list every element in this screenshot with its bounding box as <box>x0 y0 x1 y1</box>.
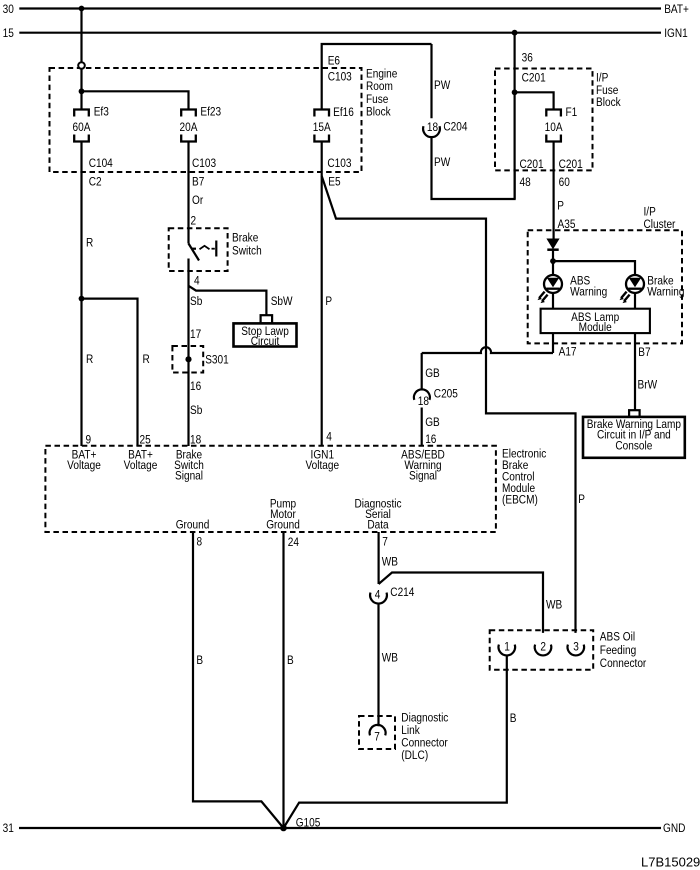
svg-text:17: 17 <box>190 328 201 341</box>
svg-text:C103: C103 <box>328 71 352 84</box>
svg-text:60: 60 <box>559 176 570 189</box>
svg-text:60A: 60A <box>73 121 91 134</box>
stop lamp circuit box <box>234 323 297 346</box>
node branch to pin 25 <box>79 296 85 302</box>
svg-text:1: 1 <box>504 641 510 654</box>
label pin 16 <box>425 433 436 446</box>
svg-text:C2: C2 <box>89 176 102 189</box>
wire diagnostic serial data <box>378 532 380 584</box>
label R <box>86 237 93 250</box>
wire bus 30 BAT+ <box>19 7 661 9</box>
svg-text:C205: C205 <box>434 388 458 401</box>
svg-text:G105: G105 <box>296 817 321 830</box>
svg-text:Warning: Warning <box>647 286 684 299</box>
brake warning lamp connector tab <box>629 410 640 417</box>
label GB <box>425 416 440 429</box>
svg-text:B7: B7 <box>192 176 204 189</box>
svg-text:GND: GND <box>663 822 685 835</box>
svg-text:7: 7 <box>374 731 380 744</box>
fuse F1 10A <box>546 110 561 142</box>
label ABS/EBD Warning Signal <box>401 449 445 483</box>
label GB <box>425 367 440 380</box>
label BAT+ <box>664 3 689 16</box>
svg-text:E5: E5 <box>328 176 340 189</box>
wire LED2 to module <box>634 293 636 309</box>
node LED branch <box>550 258 556 264</box>
label C103 <box>328 71 352 84</box>
svg-text:Fuse: Fuse <box>596 84 618 97</box>
wire GB lower <box>421 408 423 447</box>
svg-text:WB: WB <box>382 556 398 569</box>
EBCM box <box>45 446 496 532</box>
svg-text:Ef16: Ef16 <box>333 106 354 119</box>
svg-text:9: 9 <box>86 434 92 447</box>
svg-text:18: 18 <box>190 434 201 447</box>
wire diode to LEDs <box>552 250 554 275</box>
wire PW lower <box>432 137 515 199</box>
svg-text:Switch: Switch <box>232 245 262 258</box>
label IGN1 <box>664 27 688 40</box>
label E5 <box>328 176 340 189</box>
label ABS Lamp Module <box>571 311 619 334</box>
svg-text:R: R <box>86 237 93 250</box>
wire WB to DLC <box>377 604 379 727</box>
svg-text:C104: C104 <box>89 157 113 170</box>
label BrW <box>638 379 658 392</box>
wire E6 to PW column <box>322 44 432 110</box>
svg-text:16: 16 <box>190 380 201 393</box>
svg-text:C214: C214 <box>390 586 414 599</box>
wire to Ef23 <box>82 91 189 109</box>
wire R to pin 9 <box>80 142 82 447</box>
wire B from oil connector pin 1 <box>284 656 507 829</box>
engine room fuse block box <box>50 68 362 172</box>
stop lamp connector tab <box>261 315 273 323</box>
svg-text:Sb: Sb <box>190 295 202 308</box>
wire battery feed <box>80 9 82 110</box>
label 18 <box>427 121 438 134</box>
label 4 <box>375 589 381 602</box>
svg-text:Feeding: Feeding <box>600 644 636 657</box>
svg-text:16: 16 <box>425 433 436 446</box>
svg-text:I/P: I/P <box>596 72 608 85</box>
oil connector pin 1 <box>499 641 516 656</box>
label B <box>510 712 517 725</box>
label 10A <box>545 121 563 134</box>
wire B7 BrW <box>634 333 636 410</box>
switch blade <box>189 244 200 261</box>
svg-text:Ground: Ground <box>176 519 210 532</box>
svg-text:Console: Console <box>615 440 652 453</box>
svg-text:C103: C103 <box>327 157 351 170</box>
wire branch to oil connector pin 2 <box>379 573 543 633</box>
label 15 <box>3 27 14 40</box>
label pin 8 <box>197 536 203 549</box>
svg-text:(EBCM): (EBCM) <box>502 494 538 507</box>
label 48 <box>520 176 531 189</box>
label C103 <box>327 157 351 170</box>
wire PW upper <box>430 44 432 118</box>
splice S301 node <box>185 356 191 362</box>
svg-text:C201: C201 <box>559 158 583 171</box>
svg-text:8: 8 <box>197 536 203 549</box>
ABS lamp module box <box>541 309 650 333</box>
label pin 25 <box>140 434 151 447</box>
svg-text:Ef3: Ef3 <box>94 106 109 119</box>
label 15A <box>313 121 331 134</box>
label BAT+ Voltage pin 9 <box>67 449 101 472</box>
ABS oil feeding connector box <box>490 630 594 670</box>
svg-text:3: 3 <box>573 641 579 654</box>
svg-text:B: B <box>510 712 517 725</box>
node on bus 15 <box>512 30 518 36</box>
label Brake Warning <box>647 275 684 299</box>
label C104 <box>89 157 113 170</box>
svg-text:30: 30 <box>3 3 14 16</box>
svg-text:P: P <box>325 295 332 308</box>
label 18 <box>418 395 429 408</box>
connector C214 <box>370 593 387 604</box>
svg-text:GB: GB <box>425 416 440 429</box>
svg-text:7: 7 <box>382 536 388 549</box>
label IGN1 Voltage <box>305 449 339 472</box>
connector C204 <box>423 126 440 137</box>
svg-text:IGN1: IGN1 <box>664 27 688 40</box>
svg-text:Sb: Sb <box>190 404 202 417</box>
svg-text:24: 24 <box>288 536 299 549</box>
svg-text:20A: 20A <box>180 121 198 134</box>
label Sb <box>190 404 202 417</box>
svg-text:18: 18 <box>418 395 429 408</box>
svg-text:Link: Link <box>401 724 420 737</box>
svg-text:15: 15 <box>3 27 14 40</box>
label 36 <box>522 52 533 65</box>
svg-text:E6: E6 <box>328 55 340 68</box>
wire E5 output <box>321 142 323 175</box>
svg-text:Cluster: Cluster <box>644 218 676 231</box>
svg-text:B7: B7 <box>638 346 650 359</box>
label Brake Switch <box>232 232 262 258</box>
svg-text:4: 4 <box>194 275 200 288</box>
label 60 <box>559 176 570 189</box>
label C204 <box>443 121 467 134</box>
wire 36 feed <box>513 33 515 199</box>
label Brake Switch Signal <box>174 449 204 483</box>
svg-text:15A: 15A <box>313 121 331 134</box>
fuse Ef16 15A <box>314 110 329 142</box>
label 60A <box>73 121 91 134</box>
svg-text:S301: S301 <box>205 354 229 367</box>
brake switch box <box>169 228 228 271</box>
label L7B15029 <box>641 855 700 870</box>
svg-text:(DLC): (DLC) <box>401 749 428 762</box>
svg-text:2: 2 <box>540 641 546 654</box>
label Or <box>192 194 203 207</box>
svg-text:C204: C204 <box>443 121 467 134</box>
wire R to pin 25 <box>82 299 138 446</box>
fuse Ef23 20A <box>181 110 196 142</box>
node on bus 30 <box>79 6 85 12</box>
svg-text:ABS Oil: ABS Oil <box>600 631 635 644</box>
svg-text:BrW: BrW <box>638 379 658 392</box>
svg-text:Room: Room <box>366 80 393 93</box>
node branch to F1 <box>512 89 518 95</box>
brake warning lamp circuit box <box>583 417 685 458</box>
label C201 <box>522 72 546 85</box>
label P <box>557 200 564 213</box>
svg-text:18: 18 <box>427 121 438 134</box>
svg-text:Brake: Brake <box>232 232 258 245</box>
label A35 <box>558 218 576 231</box>
label B <box>196 654 203 667</box>
svg-text:P: P <box>578 493 585 506</box>
svg-text:WB: WB <box>546 599 562 612</box>
label WB <box>382 556 398 569</box>
connector open circle <box>78 62 85 69</box>
label I/P Fuse Block <box>596 72 621 110</box>
svg-text:48: 48 <box>520 176 531 189</box>
svg-text:2: 2 <box>191 215 197 228</box>
svg-text:C201: C201 <box>522 72 546 85</box>
svg-text:C201: C201 <box>520 158 544 171</box>
ground node G105 <box>280 825 287 832</box>
LED brake warning <box>620 275 645 303</box>
wire LED1 to module <box>552 293 554 309</box>
label 31 <box>3 822 14 835</box>
svg-text:A35: A35 <box>558 218 576 231</box>
label pin 7 <box>382 536 388 549</box>
label Brake Warning Lamp Circuit in I/P and Console <box>587 418 681 453</box>
svg-text:Voltage: Voltage <box>124 459 158 472</box>
label Engine Room Fuse Block <box>366 68 397 119</box>
label C205 <box>434 388 458 401</box>
svg-text:B: B <box>196 654 203 667</box>
wire branch to oil connector pin 3 <box>322 176 576 633</box>
svg-text:31: 31 <box>3 822 14 835</box>
wire A17 to GB <box>422 333 553 353</box>
svg-text:25: 25 <box>140 434 151 447</box>
I/P cluster box <box>528 230 682 343</box>
wire ground pin 8 <box>193 532 284 828</box>
oil connector pin 2 <box>535 641 552 656</box>
svg-text:R: R <box>86 353 93 366</box>
wire P to cluster <box>552 142 554 240</box>
svg-text:Circuit: Circuit <box>251 335 280 348</box>
fuse Ef3 60A <box>74 110 89 142</box>
label I/P Cluster <box>644 206 676 231</box>
svg-text:Signal: Signal <box>175 470 203 483</box>
svg-text:PW: PW <box>434 156 451 169</box>
wire Or to brake switch <box>187 142 189 244</box>
I/P fuse block box <box>495 69 593 171</box>
DLC pin 7 connector <box>370 725 386 735</box>
label B7 <box>192 176 204 189</box>
svg-text:Connector: Connector <box>401 737 448 750</box>
svg-text:Warning: Warning <box>570 286 607 299</box>
svg-text:Signal: Signal <box>409 470 437 483</box>
label R <box>86 353 93 366</box>
label pin 4 <box>194 275 200 288</box>
svg-text:WB: WB <box>382 652 398 665</box>
connector C205 <box>414 389 430 399</box>
wire pump motor ground pin 24 <box>282 532 284 828</box>
svg-text:P: P <box>557 200 564 213</box>
label Pump Motor Ground <box>266 498 300 532</box>
svg-text:PW: PW <box>434 79 451 92</box>
switch actuator bar <box>215 241 217 257</box>
wire to F1 <box>515 92 554 109</box>
svg-text:Voltage: Voltage <box>67 459 101 472</box>
label G105 <box>296 817 321 830</box>
label B <box>287 654 294 667</box>
DLC box <box>359 716 395 749</box>
label S301 <box>205 354 229 367</box>
wire to brake warning LED <box>553 261 635 275</box>
label 7 <box>374 731 380 744</box>
label pin 18 <box>190 434 201 447</box>
label Ef23 <box>200 106 221 119</box>
svg-text:Fuse: Fuse <box>366 93 388 106</box>
label 20A <box>180 121 198 134</box>
label A17 <box>559 346 577 359</box>
svg-text:Connector: Connector <box>600 657 647 670</box>
svg-text:L7B15029: L7B15029 <box>641 855 700 870</box>
label pin 24 <box>288 536 299 549</box>
label BAT+ Voltage pin 25 <box>124 449 158 472</box>
svg-text:4: 4 <box>375 589 381 602</box>
label pin 9 <box>86 434 92 447</box>
svg-text:Or: Or <box>192 194 203 207</box>
diode D1 <box>547 239 558 250</box>
label 16 <box>190 380 201 393</box>
label C2 <box>89 176 102 189</box>
label C103 <box>192 157 216 170</box>
label SbW <box>271 295 293 308</box>
label ABS Oil Feeding Connector <box>600 631 647 671</box>
label C201 <box>559 158 583 171</box>
svg-text:Block: Block <box>596 96 621 109</box>
svg-text:B: B <box>287 654 294 667</box>
wire Sb to pin 18 <box>187 259 189 447</box>
splice S301 box <box>172 346 203 373</box>
svg-text:4: 4 <box>326 431 332 444</box>
svg-text:Ground: Ground <box>266 519 300 532</box>
wire branch to stop lamp <box>189 286 267 315</box>
label C214 <box>390 586 414 599</box>
svg-text:Data: Data <box>367 519 389 532</box>
svg-text:Module: Module <box>579 321 612 334</box>
svg-text:C103: C103 <box>192 157 216 170</box>
node branch to Ef23 <box>79 88 85 94</box>
label F1 <box>566 106 578 119</box>
oil connector pin 3 <box>568 641 585 656</box>
LED ABS warning <box>538 275 563 303</box>
svg-text:GB: GB <box>425 367 440 380</box>
svg-text:Block: Block <box>366 106 391 119</box>
wire GB upper <box>421 353 423 390</box>
label B7 <box>638 346 650 359</box>
svg-text:I/P: I/P <box>644 206 656 219</box>
svg-text:Diagnostic: Diagnostic <box>401 712 448 725</box>
label WB <box>546 599 562 612</box>
label WB <box>382 652 398 665</box>
svg-text:R: R <box>143 353 150 366</box>
wire bus 31 GND <box>19 827 661 829</box>
wire bus 15 IGN1 <box>19 32 661 34</box>
label Diagnostic Link Connector (DLC) <box>401 712 448 762</box>
svg-text:F1: F1 <box>566 106 578 119</box>
label Ef3 <box>94 106 109 119</box>
switch linkage dashes <box>192 246 215 249</box>
label Ef16 <box>333 106 354 119</box>
svg-text:A17: A17 <box>559 346 577 359</box>
label 17 <box>190 328 201 341</box>
label PW <box>434 156 451 169</box>
label Sb <box>190 295 202 308</box>
label P <box>578 493 585 506</box>
svg-text:10A: 10A <box>545 121 563 134</box>
label E6 <box>328 55 340 68</box>
svg-text:SbW: SbW <box>271 295 293 308</box>
svg-text:BAT+: BAT+ <box>664 3 689 16</box>
label pin 2 <box>191 215 197 228</box>
wire P to pin 4 <box>321 174 323 446</box>
label PW <box>434 79 451 92</box>
svg-text:Voltage: Voltage <box>305 459 339 472</box>
svg-text:Engine: Engine <box>366 68 397 81</box>
svg-text:Ef23: Ef23 <box>200 106 221 119</box>
label Ground pin 8 <box>176 519 210 532</box>
label 30 <box>3 3 14 16</box>
label ABS Warning <box>570 275 607 299</box>
label C201 <box>520 158 544 171</box>
svg-text:36: 36 <box>522 52 533 65</box>
label pin 4 <box>326 431 332 444</box>
label Diagnostic Serial Data <box>354 498 401 532</box>
label P <box>325 295 332 308</box>
label Stop Lawp Circuit <box>241 325 289 348</box>
label Electronic Brake Control Module (EBCM) <box>502 448 547 507</box>
label R <box>143 353 150 366</box>
label GND <box>663 822 685 835</box>
